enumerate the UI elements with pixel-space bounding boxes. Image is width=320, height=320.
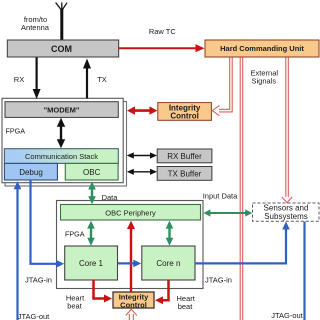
svg-text:Core n: Core n — [156, 259, 180, 268]
svg-text:COM: COM — [51, 44, 72, 54]
svg-text:Input Data: Input Data — [203, 192, 238, 201]
svg-text:Communication Stack: Communication Stack — [25, 152, 98, 161]
svg-text:TX: TX — [97, 75, 107, 84]
svg-text:FPGA: FPGA — [65, 230, 85, 239]
svg-text:Data: Data — [102, 193, 119, 202]
svg-text:Raw TC: Raw TC — [149, 27, 177, 36]
svg-text:beat: beat — [178, 302, 194, 311]
svg-text:beat: beat — [67, 302, 83, 311]
svg-text:JTAG-out: JTAG-out — [18, 312, 50, 320]
svg-text:Debug: Debug — [19, 168, 43, 177]
svg-text:RX: RX — [14, 75, 24, 84]
svg-text:JTAG-in: JTAG-in — [205, 276, 232, 285]
svg-text:OBC: OBC — [83, 168, 101, 177]
svg-text:Antenna: Antenna — [21, 23, 50, 32]
svg-text:RX Buffer: RX Buffer — [167, 152, 202, 161]
svg-text:FPGA: FPGA — [6, 127, 26, 136]
svg-text:Control: Control — [170, 112, 198, 121]
svg-text:OBC Periphery: OBC Periphery — [105, 208, 156, 217]
svg-text:Control: Control — [120, 300, 147, 309]
svg-text:"MODEM": "MODEM" — [44, 105, 80, 114]
svg-text:Hard Commanding Unit: Hard Commanding Unit — [220, 44, 304, 53]
svg-text:JTAG-out: JTAG-out — [271, 311, 303, 320]
svg-text:JTAG-in: JTAG-in — [25, 276, 52, 285]
svg-text:Subsystems: Subsystems — [264, 212, 308, 221]
svg-text:Core 1: Core 1 — [79, 259, 104, 268]
svg-text:TX Buffer: TX Buffer — [168, 169, 202, 178]
svg-text:Signals: Signals — [251, 77, 276, 86]
